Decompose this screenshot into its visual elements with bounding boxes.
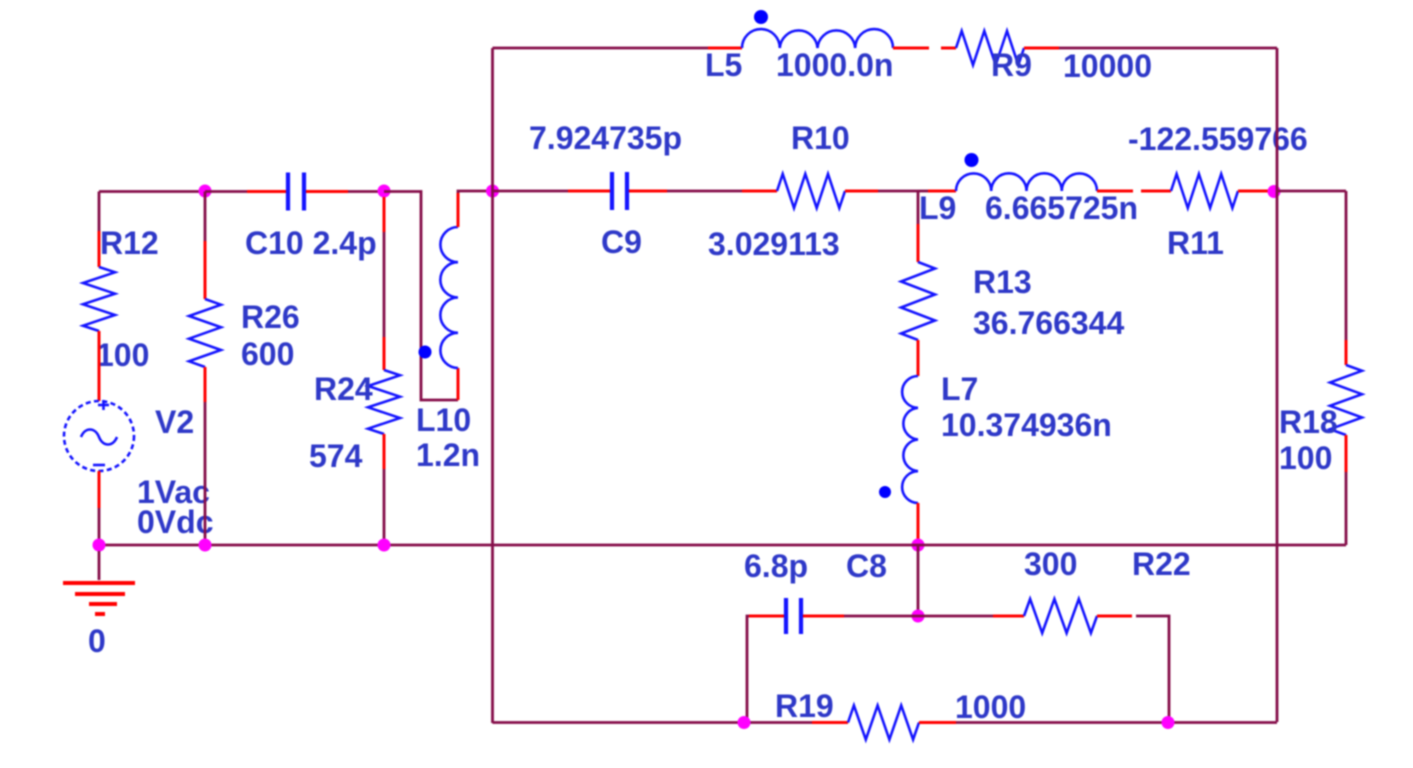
node junction C8 row <box>912 610 925 623</box>
svg-text:1.2n: 1.2n <box>416 437 480 473</box>
wire junction to L10 loop <box>384 192 458 401</box>
svg-text:R26: R26 <box>241 299 300 335</box>
node junction R22 bottom <box>1162 716 1175 729</box>
svg-text:10000: 10000 <box>1063 48 1152 84</box>
resistor R10 right pin <box>845 190 878 193</box>
wire junction to R18 branch <box>1277 190 1346 193</box>
wire tee to L9 <box>918 190 928 193</box>
svg-text:R22: R22 <box>1132 546 1191 582</box>
resistor R18 bottom pin <box>1345 435 1348 472</box>
resistor R26 top pin <box>204 241 207 299</box>
svg-text:L7: L7 <box>941 371 978 407</box>
inductor L10 polarity dot <box>419 346 432 359</box>
resistor R18 top pin <box>1345 340 1348 365</box>
inductor L9 left pin <box>928 190 956 193</box>
node junction R24 bottom <box>378 539 391 552</box>
capacitor C8 <box>784 598 788 634</box>
wire top row left <box>493 47 709 50</box>
ac source V2 <box>64 401 134 471</box>
inductor L7 bottom pin <box>917 503 920 544</box>
resistor R11 left pin <box>1141 190 1171 193</box>
svg-text:R13: R13 <box>973 264 1032 300</box>
wire junction to C10 left pin <box>205 190 247 193</box>
svg-text:0Vdc: 0Vdc <box>137 504 213 540</box>
svg-text:100: 100 <box>96 337 149 373</box>
node junction R26 bottom <box>199 539 212 552</box>
capacitor C10 left pin <box>247 190 286 193</box>
wire junction to R26 <box>204 192 207 242</box>
wire L10 top to trunk <box>458 191 493 193</box>
inductor L5 <box>742 29 893 48</box>
svg-text:-122.559766: -122.559766 <box>1128 121 1308 157</box>
resistor R12 top pin <box>98 231 101 267</box>
resistor R13 <box>901 262 935 340</box>
wire right trunk of box <box>1276 48 1279 722</box>
wire top row right <box>1059 47 1277 50</box>
svg-text:R19: R19 <box>775 688 834 724</box>
ground stub <box>98 551 101 580</box>
svg-text:C10 2.4p: C10 2.4p <box>245 225 377 261</box>
node junction L7 bottom <box>912 539 925 552</box>
resistor R24 bottom pin <box>383 434 386 469</box>
wire R10 to R13 tee <box>878 190 918 193</box>
svg-text:574: 574 <box>309 438 363 474</box>
wire L7 node down to C8 row <box>917 545 920 616</box>
node junction R26 top <box>199 185 212 198</box>
svg-text:R12: R12 <box>100 225 159 261</box>
resistor R26 bottom pin <box>204 367 207 402</box>
resistor R11 <box>1171 174 1238 208</box>
wire C8 left corner <box>747 616 786 722</box>
svg-text:3.029113: 3.029113 <box>708 226 840 262</box>
svg-text:1000: 1000 <box>955 689 1026 725</box>
node junction C10 right <box>378 185 391 198</box>
resistor R11 right pin <box>1238 190 1273 193</box>
wire C9 to R10 <box>667 190 742 193</box>
resistor R18 <box>1330 365 1362 435</box>
svg-text:R11: R11 <box>1167 225 1224 261</box>
resistor R9 left pin <box>941 47 956 50</box>
inductor L9 polarity dot <box>965 153 979 167</box>
capacitor C9 <box>610 172 614 210</box>
inductor L5 polarity dot <box>754 10 768 24</box>
capacitor C9 right pin <box>629 190 667 193</box>
wire R18 to bottom rail <box>1345 472 1348 545</box>
wire top-left corner to R12 <box>98 192 101 232</box>
wire R24 to bottom rail <box>383 469 386 545</box>
inductor L9 <box>956 173 1097 191</box>
svg-text:100: 100 <box>1279 440 1332 476</box>
wire bottom row left <box>493 721 813 724</box>
resistor R13 top pin <box>917 224 920 262</box>
V2 bottom pin <box>98 471 101 508</box>
svg-text:L5: L5 <box>705 47 742 83</box>
svg-text:R18: R18 <box>1279 404 1338 440</box>
inductor L10 bottom pin <box>457 368 460 400</box>
wire left trunk of box <box>491 48 494 723</box>
resistor R26 <box>189 299 221 367</box>
resistor R22 <box>1024 599 1097 633</box>
svg-text:R9: R9 <box>991 47 1032 83</box>
wire tee down <box>917 191 920 224</box>
wire R26 to bottom rail <box>204 402 207 545</box>
inductor L10 <box>440 227 458 368</box>
svg-text:300: 300 <box>1024 546 1077 582</box>
resistor R9 <box>956 31 1024 65</box>
resistor R22 left pin <box>993 615 1024 618</box>
inductor L10 top pin <box>457 193 460 227</box>
inductor L5 right pin <box>893 47 929 50</box>
resistor R10 left pin <box>742 190 777 193</box>
svg-text:R24: R24 <box>314 371 373 407</box>
resistor R19 <box>848 706 919 740</box>
svg-text:L10: L10 <box>416 402 471 438</box>
wire top-left row <box>99 190 205 193</box>
resistor R24 <box>368 370 400 434</box>
wire long bottom rail <box>99 544 1346 547</box>
wire R22 right corner <box>1136 616 1169 722</box>
wire mid row from trunk <box>493 190 569 193</box>
capacitor C10 <box>286 173 290 211</box>
resistor R19 left pin <box>812 721 848 724</box>
resistor R12 <box>83 267 115 331</box>
inductor L9 right pin <box>1097 190 1133 193</box>
wire junction to R22 <box>918 615 993 618</box>
svg-text:7.924735p: 7.924735p <box>529 120 682 156</box>
svg-text:10.374936n: 10.374936n <box>941 407 1112 443</box>
wire bottom row right <box>956 721 1277 724</box>
node junction R11 trunk <box>1268 185 1281 198</box>
capacitor C9 left pin <box>568 190 610 193</box>
resistor R10 <box>777 174 845 208</box>
resistor R22 right pin <box>1097 615 1132 618</box>
capacitor C8 right pin <box>803 615 844 618</box>
svg-text:1000.0n: 1000.0n <box>776 47 893 83</box>
resistor R19 right pin <box>919 721 956 724</box>
capacitor C8 left pin <box>749 615 784 618</box>
wire R18 branch down <box>1345 191 1348 340</box>
svg-text:36.766344: 36.766344 <box>973 305 1124 341</box>
inductor L5 left pin <box>708 47 742 50</box>
resistor R24 top pin <box>383 337 386 370</box>
svg-text:600: 600 <box>241 336 294 372</box>
svg-text:C9: C9 <box>601 224 642 260</box>
svg-text:6.8p: 6.8p <box>744 548 808 584</box>
svg-text:V2: V2 <box>155 404 194 440</box>
inductor L7 <box>902 376 918 503</box>
wire junction to R24 <box>383 232 386 337</box>
wire V2 to bottom rail <box>98 508 101 545</box>
resistor R12 bottom pin / V2 top pin <box>98 331 101 401</box>
wire stub below junction <box>383 197 386 232</box>
wire C10 to junction <box>348 190 384 193</box>
svg-text:R10: R10 <box>791 120 850 156</box>
resistor R9 right pin <box>1024 47 1059 50</box>
svg-text:6.665725n: 6.665725n <box>985 190 1138 226</box>
svg-text:L9: L9 <box>919 190 956 226</box>
node junction C8 bottom <box>738 716 751 729</box>
capacitor C10 right pin <box>306 190 348 193</box>
svg-text:0: 0 <box>88 623 106 659</box>
resistor R13 bottom pin / L7 top pin <box>917 340 920 376</box>
svg-text:C8: C8 <box>846 548 887 584</box>
inductor L7 polarity dot <box>879 486 891 498</box>
ground <box>63 583 135 614</box>
node junction L10 trunk <box>486 185 499 198</box>
wire C8 to junction <box>844 615 918 618</box>
node junction ground <box>93 539 106 552</box>
